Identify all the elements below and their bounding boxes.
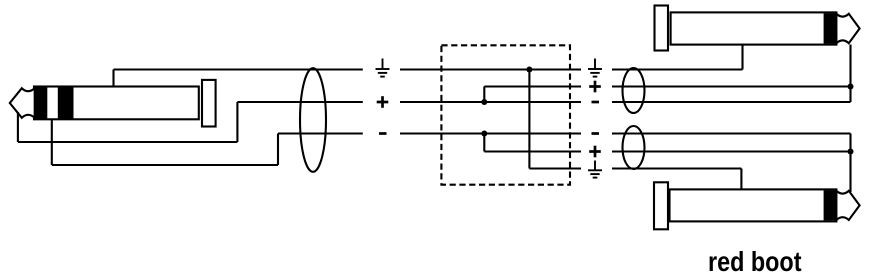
ground symbol (right column, top) <box>588 59 602 77</box>
mono plug J3 tip contact (arrow) <box>836 191 859 220</box>
wire: tip run under plug <box>18 141 238 143</box>
wire: minus row segment through box <box>400 132 581 134</box>
mono plug J2 body (sleeve barrel) <box>671 12 837 44</box>
TRS plug J1 insulator band 2 <box>58 87 74 118</box>
wire: ground row segment to top jack <box>612 68 743 70</box>
wire: bottom ground row inside box <box>529 167 581 169</box>
junction dot: plus split <box>481 99 487 105</box>
mono plug J2 collar <box>655 6 669 51</box>
mono plug J3 insulator band <box>824 190 837 220</box>
wire: bottom ground row to bottom jack <box>612 167 741 169</box>
wire: J3 tip rise <box>849 134 851 193</box>
cable shield ellipse (left cable) <box>300 68 326 172</box>
TRS plug J1 tip contact (arrow) <box>10 88 35 118</box>
wire: J3 sleeve rise to ground row <box>740 169 742 190</box>
mono plug J2 tip contact (arrow) <box>836 14 859 43</box>
wire: ground riser down inside box <box>528 70 530 169</box>
wire: top plus row to top jack tip <box>612 85 851 87</box>
wire: minus row segment to bottom jack tip <box>612 132 851 134</box>
plus label (left column) <box>377 96 389 108</box>
plus label (right column, row E) <box>589 146 601 158</box>
wire: J1 ring contact down <box>51 119 53 165</box>
cable shield ellipse (top right cable) <box>623 68 645 113</box>
wire: ground row segment through box <box>400 68 581 70</box>
wire: ground row segment left <box>114 68 363 70</box>
TRS stereo plug J1 body (sleeve barrel) <box>34 87 199 120</box>
ground symbol (left column) <box>376 59 390 77</box>
mono plug J3 body (sleeve barrel) <box>670 189 837 221</box>
svg-text:red boot: red boot <box>708 246 802 277</box>
junction dot: minus split <box>481 131 487 137</box>
wire: J1 sleeve up to ground row <box>112 70 114 87</box>
wire: plus row segment to top jack tip <box>612 101 851 103</box>
ground symbol (right column, bottom) <box>588 161 602 178</box>
wire: minus branch riser <box>483 134 485 152</box>
TRS plug J1 insulator band 1 <box>34 87 48 118</box>
junction dot: J3 tip tie <box>848 149 854 155</box>
wire: J2 sleeve drop to ground row <box>741 45 743 70</box>
junction dot: J2 tip tie <box>848 84 854 90</box>
wire: bottom plus row to bottom jack tip <box>612 150 851 152</box>
cable shield ellipse (bottom right cable) <box>623 126 645 169</box>
wire: plus row segment left <box>237 101 362 103</box>
mono plug J3 collar <box>654 182 668 229</box>
wire: ring riser to minus row <box>277 134 279 166</box>
splitter dashed box <box>441 45 570 184</box>
wire: minus row segment left <box>278 132 363 134</box>
TRS plug J1 collar <box>202 80 216 127</box>
wire: top plus row inside box <box>484 85 581 87</box>
mono plug J2 insulator band <box>824 13 837 43</box>
junction dot: ground split <box>526 67 532 73</box>
wire: J2 tip drop <box>849 45 851 103</box>
wire: plus row segment through box <box>400 101 581 103</box>
wire: bottom plus row inside box <box>484 150 581 152</box>
minus label (right column, row D) <box>592 132 600 135</box>
minus label (left column) <box>379 132 387 135</box>
minus label (right column, row C) <box>592 101 600 104</box>
wire: tip riser to plus row <box>236 102 238 142</box>
plus label (right column, row B) <box>589 81 601 93</box>
wire: plus branch riser <box>483 87 485 103</box>
wire: J1 tip contact down <box>17 112 19 142</box>
wire: ring run under plug <box>52 164 278 166</box>
